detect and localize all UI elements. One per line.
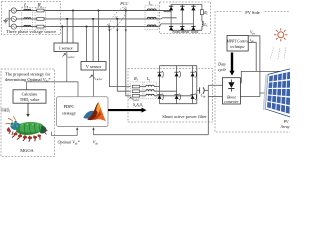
bridge bottom rail bbox=[171, 29, 202, 31]
inductor Lf2 bbox=[146, 90, 154, 92]
inductor Lc phase a bbox=[147, 9, 156, 11]
wire Lf1 to inverter leg1 bbox=[154, 86, 159, 88]
current arrow if c bbox=[108, 30, 110, 32]
probe arrow vs bbox=[90, 75, 93, 78]
label PV Array bbox=[279, 120, 289, 129]
node dot b3 bbox=[116, 18, 118, 20]
tick mark b bbox=[115, 16, 118, 18]
node dot b1 bbox=[66, 18, 68, 20]
wire phase c bus bbox=[16, 26, 158, 28]
PDPC strategy box bbox=[57, 97, 109, 127]
inductor Lc phase c bbox=[147, 25, 156, 27]
label Duty cycle bbox=[217, 62, 226, 72]
inductor Ls phase a bbox=[24, 9, 31, 10]
wire V sensor tap b bbox=[92, 19, 94, 62]
bridge top rail bbox=[171, 3, 202, 5]
bridge leg 2 bbox=[181, 4, 183, 30]
wire bridge input a bbox=[158, 11, 171, 12]
svg-text:strategy: strategy bbox=[62, 110, 77, 115]
resistor group Rf dashed box bbox=[131, 82, 143, 99]
wire Vdc sense vertical bbox=[207, 85, 209, 134]
wire V sensor tap a bbox=[98, 11, 100, 62]
I sensor box bbox=[54, 43, 78, 52]
svg-text:Rs: Rs bbox=[37, 3, 43, 8]
svg-text:Boost: Boost bbox=[227, 95, 237, 99]
irradiance dashed rays bbox=[270, 48, 286, 60]
load branch wire bbox=[201, 4, 203, 30]
wire dc to boost plus bbox=[208, 84, 222, 86]
diode D6 bbox=[191, 26, 195, 30]
wire dc to boost minus bbox=[208, 96, 222, 98]
resistor Rs phase b bbox=[37, 18, 44, 21]
wire I sensor output down bbox=[66, 52, 68, 82]
current arrow if a bbox=[125, 30, 127, 32]
MATLAB logo bbox=[83, 102, 106, 121]
diode D5 bbox=[180, 26, 184, 30]
node dot c1 bbox=[61, 26, 63, 28]
inverter dc right wire bbox=[196, 66, 198, 104]
MPPT control box bbox=[226, 36, 249, 52]
duty cycle thick arrow bbox=[229, 53, 234, 76]
svg-text:Shunt active power filter: Shunt active power filter bbox=[162, 114, 207, 119]
PV array panel bbox=[263, 68, 292, 117]
node dot a1 bbox=[72, 9, 74, 11]
node dot b2 bbox=[92, 18, 94, 20]
wire Vdc feedback bbox=[94, 128, 209, 134]
IGBT Q2 bbox=[174, 71, 180, 78]
svg-text:Array: Array bbox=[279, 125, 289, 129]
node dot a3 bbox=[125, 9, 127, 11]
wire bridge input b bbox=[158, 18, 177, 19]
wire bridge input c bbox=[158, 24, 193, 27]
bridge leg 1 bbox=[170, 4, 172, 30]
sun bbox=[274, 28, 287, 41]
wire SAPF drop phase b bbox=[117, 19, 130, 91]
svg-text:The proposed strategy for: The proposed strategy for bbox=[5, 71, 51, 76]
IGBT Q5 bbox=[174, 93, 180, 100]
resistor group Rs dashed box bbox=[35, 7, 46, 29]
svg-text:V sensor: V sensor bbox=[86, 64, 102, 69]
wire phase b bus bbox=[16, 18, 158, 20]
inductor Ls phase b bbox=[24, 18, 31, 19]
AC source V2 bbox=[11, 16, 16, 21]
resistor Rf2 bbox=[132, 90, 139, 93]
three phase voltage source dashed box bbox=[2, 2, 61, 35]
wire I sensor tap c bbox=[61, 27, 63, 43]
wire phase a bus bbox=[16, 10, 171, 12]
diode D3 bbox=[191, 6, 195, 10]
svg-text:Ls: Ls bbox=[23, 3, 29, 8]
resistor Rs phase c bbox=[37, 25, 44, 28]
AC source V3 bbox=[11, 24, 16, 29]
MGOA grasshopper image bbox=[6, 117, 48, 142]
AC source V1 bbox=[11, 8, 16, 13]
wire is to PDPC bbox=[77, 82, 79, 97]
V sensor box bbox=[81, 62, 106, 71]
wire SAPF drop phase c bbox=[109, 27, 130, 87]
capacitor Cdc bbox=[200, 87, 209, 93]
IGBT Q6 bbox=[190, 93, 196, 100]
wire Rf3 to Lf3 bbox=[140, 95, 146, 97]
svg-text:PV Side: PV Side bbox=[245, 10, 259, 15]
wire I sensor tap b bbox=[66, 19, 68, 43]
inverter leg 2 bbox=[176, 66, 178, 104]
wire neutral bbox=[6, 11, 12, 27]
wire ipv stub bbox=[248, 42, 256, 71]
svg-text:converter: converter bbox=[224, 100, 239, 104]
SAPF dashed box bbox=[128, 69, 213, 123]
svg-text:PCC: PCC bbox=[119, 1, 128, 6]
node dot c3 bbox=[108, 26, 110, 28]
inverter bottom rail bbox=[160, 103, 197, 105]
wire is signal horizontal bbox=[27, 81, 78, 83]
wire is to calculate box bbox=[26, 82, 28, 90]
PV side dashed box bbox=[215, 12, 292, 133]
svg-text:Calculate: Calculate bbox=[22, 92, 38, 97]
PCC ellipse bbox=[106, 5, 130, 32]
wire V sensor output down bbox=[93, 70, 95, 97]
svg-text:MGOA: MGOA bbox=[20, 148, 34, 153]
inductor group Ls dashed box bbox=[22, 7, 33, 29]
ground bbox=[3, 19, 7, 23]
IGBT Q4 bbox=[157, 93, 163, 100]
wire Rf1 to Lf1 bbox=[140, 86, 146, 88]
svg-text:Three phase voltage source: Three phase voltage source bbox=[6, 29, 56, 34]
diode D2 bbox=[180, 6, 184, 10]
label proposed strategy title bbox=[5, 71, 51, 83]
svg-text:I sensor: I sensor bbox=[59, 45, 73, 50]
boost diode bbox=[228, 80, 234, 92]
wire Lf3 to inverter leg3 bbox=[154, 95, 192, 97]
probe arrow if bbox=[129, 97, 132, 100]
svg-text:MPPT Control: MPPT Control bbox=[226, 39, 249, 43]
resistor Rf3 bbox=[132, 95, 139, 98]
node dot a2 bbox=[97, 9, 99, 11]
inverter leg 1 bbox=[159, 66, 161, 104]
inductor Lc phase b bbox=[147, 17, 156, 19]
gate signals thick arrow bbox=[108, 108, 147, 113]
inductor Lf3 bbox=[146, 94, 154, 96]
wire optimal Vdc output bbox=[52, 128, 78, 135]
svg-text:PV: PV bbox=[283, 120, 289, 124]
svg-text:technique: technique bbox=[230, 45, 245, 49]
inverter leg 3 bbox=[192, 66, 194, 104]
inductor group Lf dashed box bbox=[144, 82, 157, 99]
resistor RL bbox=[200, 10, 203, 15]
inductor group Lc dashed box bbox=[145, 5, 158, 30]
probe arrow is bbox=[63, 54, 66, 57]
arrow calculate to MGOA bbox=[26, 103, 29, 117]
wire V sensor tap c bbox=[86, 27, 88, 62]
wire pv lower bus bbox=[240, 93, 266, 97]
tick mark c bbox=[107, 24, 110, 26]
calculate THD box bbox=[13, 90, 46, 103]
current arrow if b bbox=[116, 30, 118, 32]
arrow optimal into PDPC bbox=[76, 127, 78, 130]
nonlinear load dashed box bbox=[160, 2, 211, 34]
arrow Vdc into PDPC bbox=[92, 127, 94, 130]
resistor Rs phase a bbox=[37, 9, 44, 12]
wire SAPF drop phase a bbox=[126, 11, 131, 96]
resistor Rf1 bbox=[132, 85, 139, 88]
diode D4 bbox=[169, 26, 173, 30]
label PV Side bbox=[243, 9, 264, 16]
proposed strategy dashed box bbox=[1, 69, 55, 157]
diode D1 bbox=[169, 6, 173, 10]
wire Lf2 to inverter leg2 bbox=[154, 90, 176, 92]
svg-text:cycle: cycle bbox=[218, 67, 226, 72]
wire I sensor tap a bbox=[72, 11, 74, 44]
inductor Ls phase c bbox=[24, 25, 31, 26]
wire Vpv stub bbox=[248, 36, 260, 97]
tick mark a bbox=[124, 8, 127, 10]
inductor LL bbox=[202, 21, 203, 26]
wire pv top bus bbox=[240, 71, 284, 82]
inverter top rail bbox=[160, 65, 197, 67]
boost converter box bbox=[222, 78, 240, 104]
IGBT Q3 bbox=[190, 71, 196, 78]
wire Rf2 to Lf2 bbox=[140, 90, 146, 92]
wire dc link to capacitor bbox=[197, 90, 200, 92]
inductor Lf1 bbox=[146, 85, 154, 87]
node dot c2 bbox=[85, 26, 87, 28]
IGBT Q1 bbox=[157, 71, 163, 78]
bridge leg 3 bbox=[192, 4, 194, 30]
svg-text:PDPC: PDPC bbox=[64, 104, 75, 109]
